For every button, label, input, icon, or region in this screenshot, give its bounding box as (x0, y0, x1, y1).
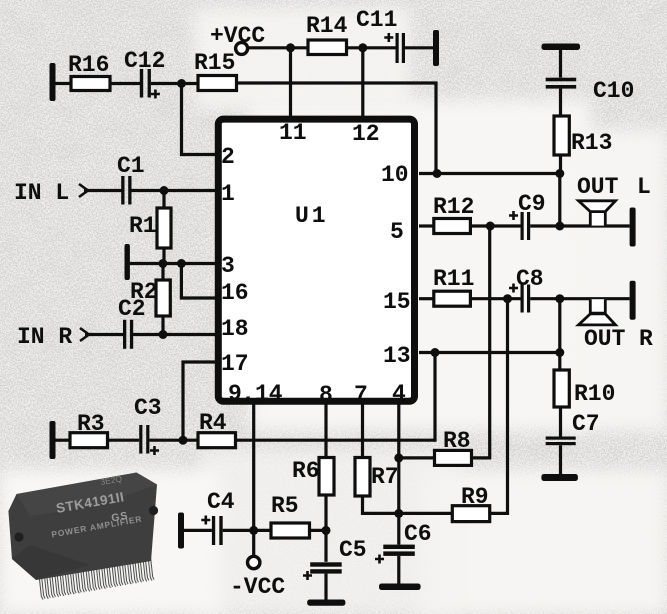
wire (pin13 vert to R4 line) (433, 353, 436, 442)
svg-text:R6: R6 (292, 458, 320, 484)
svg-text:R12: R12 (433, 194, 474, 220)
ground bar (C5) (307, 600, 345, 606)
capacitor C2 (118, 296, 146, 349)
wire (184, 529, 212, 532)
ground terminal bar (R16 input) (50, 63, 56, 101)
node (555, 294, 564, 303)
svg-text:16: 16 (221, 280, 249, 306)
ground terminal bar (C11) (433, 30, 439, 66)
svg-text:10: 10 (381, 162, 409, 188)
wire (pin15 line) (419, 297, 434, 300)
wire (R8 right up to C9 line) (472, 226, 490, 458)
capacitor C12 (124, 48, 165, 99)
wire (347, 46, 396, 49)
node (555, 169, 564, 178)
resistor R11 (433, 266, 474, 306)
resistor R8 (435, 428, 472, 465)
wire (pin18) (133, 333, 216, 336)
svg-text:C1: C1 (117, 153, 145, 179)
resistor R1 (129, 191, 171, 264)
svg-text:C6: C6 (404, 521, 432, 547)
resistor R4 (198, 410, 236, 448)
svg-text:17: 17 (221, 351, 249, 377)
svg-text:R4: R4 (199, 410, 227, 436)
svg-text:U1: U1 (295, 203, 329, 229)
svg-text:R5: R5 (271, 493, 299, 519)
wire (pin2 branch) (182, 84, 217, 155)
wire (470, 224, 520, 227)
node (159, 330, 168, 339)
svg-text:C11: C11 (356, 7, 397, 33)
wire (223, 529, 271, 532)
svg-text:R1: R1 (129, 213, 157, 239)
svg-text:IN L: IN L (14, 180, 69, 206)
svg-text:R13: R13 (571, 130, 612, 156)
IC U1 (218, 119, 414, 401)
wire (110, 82, 140, 85)
svg-text:R3: R3 (77, 411, 105, 437)
IN R input arrow (17, 324, 89, 350)
wire (pin7 drop) (361, 405, 364, 458)
ground terminal bar (pin3) (125, 244, 130, 280)
wire (pin5 line) (419, 224, 434, 227)
svg-text:C2: C2 (118, 296, 146, 322)
ground terminal bar (R3 input) (50, 421, 56, 459)
resistor R15 (194, 50, 237, 91)
node (431, 348, 440, 357)
wire (558, 174, 561, 227)
svg-text:OUT: OUT (584, 326, 626, 352)
capacitor C4 (201, 489, 235, 545)
resistor R16 (68, 52, 110, 91)
svg-text:C9: C9 (518, 191, 546, 217)
wire (151, 82, 198, 85)
wire (530, 297, 629, 300)
resistor R3 (70, 411, 108, 448)
svg-text:1: 1 (221, 181, 235, 207)
wire (558, 299, 561, 353)
svg-text:OUT: OUT (577, 174, 619, 200)
chip legs (40, 554, 153, 599)
+VCC terminal (210, 23, 265, 54)
wire (530, 224, 629, 227)
wire (108, 439, 140, 442)
svg-text:R9: R9 (461, 484, 489, 510)
svg-text:L: L (637, 174, 651, 200)
ground bar (C6) (379, 584, 421, 591)
svg-text:5: 5 (390, 219, 404, 245)
svg-text:R10: R10 (574, 381, 615, 407)
wire (470, 297, 520, 300)
resistor R12 (433, 194, 474, 234)
wire (84, 189, 122, 192)
node (pin1 junction) (160, 186, 169, 195)
svg-text:-VCC: -VCC (230, 574, 285, 600)
svg-text:8: 8 (319, 382, 333, 408)
svg-text:13: 13 (383, 343, 411, 369)
node (503, 294, 512, 303)
svg-text:C8: C8 (516, 266, 544, 292)
wire (pin17 branch) (183, 362, 216, 440)
resistor R5 (271, 493, 310, 538)
svg-text:R11: R11 (433, 266, 474, 292)
node (R15/C12/pin2 junction) (177, 79, 186, 88)
svg-text:C12: C12 (124, 48, 165, 74)
ground bar (C10 top) (542, 44, 581, 51)
resistor R7 (355, 458, 399, 497)
wire (R4 to pin13 drop) (236, 439, 436, 442)
wire (405, 46, 433, 49)
svg-text:+VCC: +VCC (210, 23, 265, 49)
node (177, 259, 186, 268)
wire (pins 9,14 drop to -VCC) (252, 405, 255, 557)
capacitor C6 (375, 513, 432, 583)
wire (324, 495, 327, 530)
wire (399, 456, 435, 459)
capacitor C9 (509, 191, 546, 240)
svg-text:IN R: IN R (17, 324, 72, 350)
node (R5/R6/C5) (322, 526, 331, 535)
svg-text:R15: R15 (194, 50, 235, 76)
capacitor C10 (546, 50, 635, 116)
node (pin12 junction) (358, 43, 367, 52)
STK4191 chip photo (8, 473, 158, 600)
chip package body (8, 473, 157, 581)
svg-text:C5: C5 (339, 537, 367, 563)
wire (363, 496, 399, 513)
terminal bar (OUT R) (630, 281, 636, 320)
capacitor C11 (356, 7, 405, 63)
wire (310, 529, 327, 532)
resistor R10 (554, 353, 615, 408)
svg-text:9,: 9, (228, 381, 256, 407)
wire (55, 82, 71, 85)
svg-text:C4: C4 (207, 489, 235, 515)
wire (pin16 branch) (181, 264, 216, 299)
resistor R13 (554, 116, 612, 174)
node (486, 222, 495, 231)
svg-text:R8: R8 (443, 428, 471, 454)
resistor R9 (452, 484, 489, 522)
node (R9 left / C6) (394, 509, 403, 518)
ground terminal bar (C4) (178, 513, 184, 549)
resistor R6 (292, 458, 334, 496)
svg-text:14: 14 (255, 381, 283, 407)
speaker OUT L (577, 174, 651, 226)
svg-text:C10: C10 (593, 78, 634, 104)
node (555, 222, 564, 231)
svg-text:C7: C7 (572, 411, 600, 437)
chip mounting holes (14, 532, 23, 541)
wire (pin12 drop) (361, 48, 364, 118)
svg-text:11: 11 (279, 120, 307, 146)
svg-text:12: 12 (352, 121, 380, 147)
node (pin11 junction) (286, 43, 295, 52)
capacitor C8 (509, 266, 544, 313)
svg-text:R7: R7 (371, 464, 399, 490)
svg-text:18: 18 (221, 316, 249, 342)
IN L input arrow (14, 180, 88, 206)
node (555, 348, 564, 357)
svg-text:R14: R14 (306, 13, 348, 39)
capacitor C7 (546, 407, 600, 474)
wire (248, 46, 308, 49)
speaker OUT R (579, 299, 654, 352)
svg-text:3: 3 (221, 253, 235, 279)
wire (132, 189, 217, 192)
wire (pin13 line) (419, 351, 560, 354)
svg-text:15: 15 (383, 289, 411, 315)
svg-text:R: R (639, 326, 653, 352)
-VCC terminal (230, 556, 285, 600)
wire (237, 83, 437, 174)
node (249, 526, 258, 535)
ground bar (C7) (541, 474, 578, 481)
wire (pin3) (130, 262, 216, 265)
wire (pin8 drop) (324, 405, 327, 458)
capacitor C1 (117, 153, 145, 205)
wire (pin11 drop) (289, 48, 292, 118)
wire (55, 439, 70, 442)
svg-text:2: 2 (221, 144, 235, 170)
capacitor C5 (303, 530, 367, 599)
wire (85, 333, 123, 336)
svg-text:C3: C3 (134, 395, 162, 421)
node (R8 left) (394, 453, 403, 462)
capacitor C3 (134, 395, 162, 455)
wire (R9 right up to C8 line) (490, 299, 508, 514)
resistor R2 (130, 264, 170, 335)
svg-text:7: 7 (354, 382, 368, 408)
wire (149, 439, 198, 442)
wire (pin4 drop) (397, 405, 400, 514)
svg-text:R16: R16 (68, 52, 109, 78)
svg-text:4: 4 (392, 381, 406, 407)
node (158, 259, 167, 268)
resistor R14 (306, 13, 348, 55)
wire (pin10 line) (419, 172, 560, 175)
node (433, 169, 442, 178)
node (pin17/R3/R4 junction) (179, 436, 188, 445)
wire (399, 512, 453, 515)
terminal bar (OUT L) (630, 208, 636, 247)
